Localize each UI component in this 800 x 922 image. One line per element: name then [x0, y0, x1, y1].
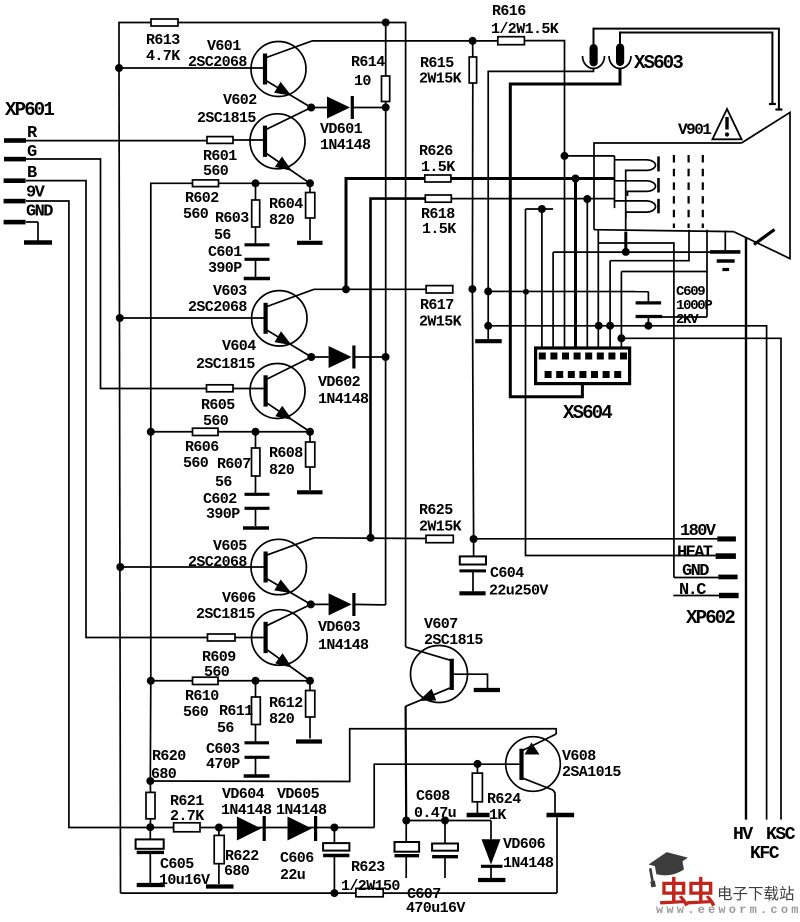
CRT anode tick	[754, 230, 775, 245]
svg-text:560: 560	[183, 455, 209, 472]
node dot V605 collector / B feed riser	[367, 534, 375, 542]
wire R616 to R cathode drop	[524, 41, 564, 354]
svg-text:R604: R604	[269, 196, 303, 213]
wire V608 emitter feedback	[150, 729, 556, 782]
C602 label	[203, 491, 240, 523]
wire V601 collector rail	[312, 40, 498, 42]
resistor R626	[425, 175, 451, 182]
R618 label	[421, 206, 456, 238]
capacitor C603	[244, 725, 270, 777]
CRT grid bar 1	[657, 156, 660, 171]
svg-text:1.5K: 1.5K	[421, 159, 455, 176]
wire R601 to V602 base	[233, 139, 265, 141]
svg-text:2W15K: 2W15K	[419, 519, 462, 536]
R611 label	[217, 703, 253, 737]
diode VD603	[311, 593, 386, 616]
wire thick G cathode feed	[346, 179, 615, 290]
svg-text:HV: HV	[733, 825, 753, 845]
C606 label	[280, 850, 314, 884]
capacitor C602	[243, 476, 270, 528]
svg-text:560: 560	[203, 163, 229, 180]
transistor V607	[406, 646, 468, 707]
wire top rail to R614/V607 drop	[178, 23, 406, 647]
wire V605 collector row	[314, 537, 426, 540]
wire V608 base	[374, 764, 521, 827]
capacitor C609	[636, 292, 663, 326]
svg-text:2W15K: 2W15K	[419, 314, 462, 331]
R602 label	[183, 190, 219, 223]
svg-text:10u16V: 10u16V	[159, 872, 210, 889]
wire V607 base to ground	[452, 674, 488, 688]
ground (R604)	[297, 241, 323, 245]
wire bias rail top	[119, 23, 151, 69]
transistor V605	[251, 538, 314, 605]
svg-text:2SC1815: 2SC1815	[196, 606, 255, 623]
resistor R621	[174, 823, 200, 832]
diode VD601	[311, 96, 386, 119]
svg-text:HEAT: HEAT	[677, 544, 713, 563]
node dot pin6/ground	[595, 322, 603, 330]
XP601 pin GND bar	[4, 220, 26, 225]
VD603 label	[318, 619, 369, 654]
C601 label	[208, 244, 242, 277]
wire staircase s1 to GND pin	[598, 243, 674, 578]
wire thick G drop to pin4	[574, 179, 577, 355]
capacitor C607 (electrolytic)	[395, 821, 420, 879]
wire XS603-2 bottom to XS604	[510, 68, 620, 397]
wire KSC line	[621, 338, 781, 819]
svg-text:R602: R602	[185, 190, 219, 207]
svg-text:2SC2068: 2SC2068	[188, 299, 247, 316]
wire x151 to R620	[149, 681, 152, 781]
C608 label	[414, 788, 456, 822]
XP602 pin HEAT bar	[716, 553, 736, 559]
HV label	[733, 825, 753, 845]
V601 label	[188, 38, 247, 71]
diode VD606	[481, 821, 503, 879]
svg-text:1N4148: 1N4148	[318, 637, 369, 654]
KSC label	[766, 825, 796, 845]
wire x151 tie line	[150, 432, 152, 681]
CRT grid dashed line 3	[702, 155, 704, 228]
C604 label	[489, 565, 548, 600]
R620 label	[151, 748, 186, 783]
C609 label	[676, 284, 712, 328]
resistor R616	[498, 37, 525, 45]
node dot V608 base / R624	[474, 760, 482, 768]
svg-text:2W15K: 2W15K	[419, 71, 462, 88]
CRT cathode 2	[615, 181, 656, 196]
XP602 pin 180V bar	[717, 536, 736, 541]
C607 label	[406, 886, 465, 917]
R626 label	[419, 143, 455, 176]
svg-text:VD606: VD606	[503, 836, 546, 853]
node dot V607 emitter node	[402, 817, 410, 825]
node dot pin7/ground	[606, 322, 614, 330]
resistor R612	[306, 681, 315, 739]
resistor R625	[426, 535, 453, 542]
node dot R620 bottom / C605	[146, 823, 154, 831]
CRT neck outline	[594, 143, 742, 230]
node dot V601 emitter / V602 collector / VD601	[307, 104, 315, 112]
R609 label	[202, 649, 236, 681]
VD602 label	[318, 374, 369, 408]
svg-text:V608: V608	[562, 748, 596, 765]
wire G1 row	[553, 251, 712, 253]
ground (R608)	[297, 490, 323, 494]
R604 label	[269, 196, 303, 229]
ground (V608 collector)	[547, 813, 575, 818]
XP601 pin G bar	[4, 157, 26, 162]
node dot R610/R611	[252, 677, 260, 685]
CRT neck bottom	[594, 230, 734, 232]
180V label	[680, 522, 717, 541]
capacitor C604	[459, 539, 486, 593]
R606 label	[183, 439, 219, 472]
svg-text:VD601: VD601	[320, 121, 363, 138]
resistor R606	[193, 428, 219, 435]
wire R609 to V606 base	[235, 637, 266, 639]
resistor R618	[425, 195, 451, 202]
wire V607 emitter line	[405, 706, 408, 820]
node dot VD605/C606	[330, 824, 338, 832]
resistor R617	[426, 286, 453, 293]
XP601 pin 9V label	[26, 184, 46, 203]
node dot R606/R607	[252, 428, 260, 436]
svg-text:2SA1015: 2SA1015	[562, 764, 621, 781]
svg-text:R616: R616	[492, 3, 526, 20]
svg-text:56: 56	[214, 227, 231, 244]
wire emitter node row	[406, 820, 491, 822]
diode VD602	[311, 346, 385, 369]
R615 label	[419, 55, 462, 88]
wire ground low tap / KFC line	[488, 326, 766, 820]
svg-text:470u16V: 470u16V	[406, 900, 465, 917]
node dot bias/V601 base	[115, 64, 123, 72]
wire V608 collector to bottom rail	[556, 818, 558, 894]
node dot C608 tap	[441, 817, 449, 825]
ground (XS603-1 line)	[475, 339, 502, 343]
svg-text:2SC2068: 2SC2068	[188, 554, 247, 571]
V603 label	[188, 283, 247, 316]
R614 label	[351, 54, 385, 90]
VD601 label	[320, 121, 371, 154]
wire pin7 drop	[609, 261, 611, 354]
svg-text:V605: V605	[213, 538, 247, 555]
capacitor C608	[432, 821, 458, 879]
node dot bias/V605 base	[116, 563, 124, 571]
wire diode clamp rail	[385, 107, 387, 357]
node dot V603 emitter / V604 collector / VD602	[307, 353, 315, 361]
R625 label	[419, 502, 462, 536]
V605 label	[188, 538, 247, 571]
wire XS603-2 top rail	[620, 33, 772, 105]
svg-text:560: 560	[183, 206, 209, 223]
resistor R614	[382, 23, 390, 108]
svg-text:C601: C601	[208, 244, 242, 261]
node dot ground line lower tap	[484, 322, 492, 330]
node dot VD602 cathode / clamp rail	[382, 353, 390, 361]
svg-text:R606: R606	[185, 439, 219, 456]
node dot C606 bottom	[330, 889, 338, 897]
R621 label	[170, 793, 204, 825]
wire thick cathode return	[624, 232, 627, 252]
wire ground mid tap	[488, 290, 648, 292]
wire cathode-1 drop to XS604 pin3 crossing	[564, 155, 566, 157]
wire pin2 drop	[552, 252, 554, 354]
svg-text:V603: V603	[213, 283, 247, 300]
wire pin8 drop	[620, 272, 622, 355]
wire staircase s2	[610, 230, 689, 261]
resistor R609	[208, 634, 236, 641]
R624 label	[487, 791, 521, 824]
wire V601 base	[119, 67, 265, 69]
wire pin1 drop	[541, 209, 543, 354]
node dot x151/R610	[147, 677, 155, 685]
CRT grid bar 2	[657, 178, 660, 193]
transistor V606	[251, 604, 310, 680]
wire XS603-1 bottom to ground line	[488, 69, 593, 343]
svg-text:820: 820	[269, 462, 295, 479]
resistor R624	[472, 764, 482, 813]
anode lead end tick 2	[769, 103, 776, 105]
svg-text:1N4148: 1N4148	[503, 855, 554, 872]
svg-text:56: 56	[215, 474, 232, 491]
node dot heater/ground crossing	[523, 289, 529, 295]
svg-text:VD602: VD602	[318, 374, 361, 391]
wire R input	[26, 140, 207, 142]
XP601 pin R label	[27, 124, 38, 143]
wire V605 base	[120, 566, 265, 568]
XP601 pin B bar	[4, 178, 26, 183]
resistor R611	[252, 681, 261, 725]
svg-text:1N4148: 1N4148	[221, 802, 272, 819]
svg-text:KFC: KFC	[750, 844, 780, 864]
node dot V601 collector rail / R615 / R616	[469, 37, 477, 45]
node dot R621/R622	[215, 824, 223, 832]
wire XS603-1 top rail	[594, 29, 779, 110]
R601 label	[203, 148, 237, 180]
wire B input	[26, 181, 208, 638]
node dot R602/R603	[252, 179, 260, 187]
V602 label	[197, 92, 257, 127]
resistor R610	[193, 677, 219, 684]
svg-text:R614: R614	[351, 54, 385, 71]
ground (R624)	[467, 813, 490, 818]
svg-text:XS603: XS603	[634, 52, 683, 74]
svg-text:C606: C606	[280, 850, 314, 867]
svg-text:R624: R624	[487, 791, 521, 808]
R616 label	[491, 3, 559, 38]
node dot G feed / pin4 drop	[572, 175, 580, 183]
wire 9V input	[26, 201, 374, 828]
svg-text:V604: V604	[222, 338, 256, 355]
svg-text:www.eeworm.com: www.eeworm.com	[656, 903, 800, 917]
capacitor C601	[244, 227, 270, 279]
svg-text:1/2W1.5K: 1/2W1.5K	[491, 21, 559, 38]
VD604 label	[221, 786, 272, 819]
CRT bell	[734, 112, 790, 258]
node dot R617 / R615	[468, 285, 476, 293]
wire R602 row	[151, 183, 310, 431]
ground (V607 base)	[474, 688, 500, 692]
C605 label	[159, 856, 210, 889]
R617 label	[419, 297, 462, 331]
svg-text:470P: 470P	[206, 756, 240, 773]
node dot B feed / pin5 drop	[583, 195, 591, 203]
node dot R625 / C604 / 180V	[470, 535, 478, 543]
wire N.C stub	[673, 595, 719, 597]
svg-text:R603: R603	[215, 210, 249, 227]
R607 label	[215, 456, 251, 491]
svg-text:R617: R617	[420, 297, 454, 314]
wire bias vertical	[119, 68, 557, 893]
KFC label	[750, 844, 780, 864]
R613 label	[146, 32, 180, 65]
wire R606 row	[151, 431, 310, 433]
wire R615/R617 to R625	[472, 289, 473, 539]
capacitor C606 (electrolytic)	[323, 828, 349, 894]
svg-text:1.5K: 1.5K	[422, 221, 456, 238]
ground (CRT coating)	[710, 231, 740, 270]
node dot V606 emitter / R612	[306, 677, 314, 685]
XP601 pin GND label	[26, 203, 53, 222]
resistor R607	[252, 432, 260, 476]
svg-text:R610: R610	[185, 688, 219, 705]
svg-text:1/2W150: 1/2W150	[341, 878, 400, 895]
node dot bias/V603 base	[116, 314, 124, 322]
node dot V604 emitter / R608	[306, 428, 314, 436]
svg-text:2SC1815: 2SC1815	[197, 110, 256, 127]
ground (VD606)	[478, 878, 505, 882]
capacitor C605 (electrolytic)	[136, 827, 165, 885]
V608 label	[562, 748, 621, 781]
wire B cathode feed riser	[371, 199, 426, 538]
V604 label	[196, 338, 256, 373]
svg-text:1N4148: 1N4148	[320, 137, 371, 154]
resistor R601	[207, 137, 233, 144]
XP602 pin NC bar	[719, 593, 739, 598]
transistor V608 (PNP)	[506, 734, 561, 813]
svg-text:180V: 180V	[680, 522, 717, 541]
svg-text:56: 56	[217, 720, 234, 737]
svg-text:10: 10	[354, 73, 371, 90]
wire G input	[26, 159, 207, 389]
transistor V604	[250, 357, 311, 432]
anode lead end tick 1	[775, 108, 782, 110]
XP602 pin GND bar	[718, 575, 737, 580]
wire pin6 drop	[597, 230, 599, 354]
node dot ground line upper tap	[484, 287, 492, 295]
resistor R623	[356, 888, 383, 896]
svg-text:R607: R607	[217, 456, 251, 473]
ground (R622)	[206, 884, 234, 888]
R610 label	[183, 688, 219, 721]
diode VD605	[288, 816, 316, 841]
svg-text:820: 820	[269, 212, 295, 229]
svg-text:C608: C608	[416, 788, 450, 805]
wire staircase s3	[621, 230, 707, 317]
XP602 label	[686, 607, 735, 629]
svg-text:680: 680	[151, 766, 177, 783]
transistor V601	[251, 41, 312, 108]
node dot V602 emitter / R604	[306, 179, 314, 187]
R608 label	[269, 445, 303, 479]
node dot V605 emitter / V606 collector / VD603	[307, 600, 315, 608]
resistor R615	[469, 41, 476, 289]
transistor V603	[252, 289, 314, 357]
C603 label	[206, 741, 240, 773]
svg-text:V901: V901	[678, 121, 711, 139]
connector XS603 socket 1	[583, 44, 605, 69]
node dot pin8 / KSC	[617, 334, 625, 342]
R623 label	[341, 859, 400, 895]
R605 label	[201, 397, 235, 430]
node dot VD601 cathode / R614	[382, 103, 390, 111]
VD605 label	[276, 786, 327, 819]
XS603 label	[634, 52, 683, 74]
node dot G1 row / thick cathode return	[622, 248, 630, 256]
wire heater row	[526, 209, 716, 556]
wire V603 collector row	[314, 288, 426, 290]
V606 label	[196, 590, 256, 623]
resistor R613	[151, 19, 178, 26]
XP601 pin G label	[27, 143, 37, 162]
CRT cathode 1 lead	[614, 156, 616, 208]
svg-text:0.47u: 0.47u	[414, 805, 456, 822]
connector XS603 socket 2	[609, 44, 631, 69]
R603 label	[214, 210, 249, 244]
R612 label	[269, 695, 303, 728]
svg-text:2SC2068: 2SC2068	[188, 54, 247, 71]
connector XP601 label	[5, 99, 54, 121]
svg-text:R605: R605	[201, 397, 235, 414]
wire GND pin	[674, 577, 718, 579]
wire HV line	[745, 238, 747, 820]
svg-text:4.7K: 4.7K	[146, 48, 180, 65]
svg-text:560: 560	[183, 704, 209, 721]
svg-text:R613: R613	[146, 32, 180, 49]
svg-text:VD604: VD604	[222, 786, 265, 803]
node dot V603 collector / thick feed	[342, 285, 350, 293]
svg-text:2.7K: 2.7K	[170, 808, 204, 825]
XP601 pin B label	[27, 164, 37, 183]
svg-text:R611: R611	[219, 703, 253, 720]
N.C label	[679, 581, 706, 600]
ground (R612)	[296, 739, 322, 743]
svg-text:1N4148: 1N4148	[318, 391, 369, 408]
svg-text:22u: 22u	[280, 867, 305, 884]
resistor R622	[214, 828, 224, 885]
svg-text:R615: R615	[420, 55, 454, 72]
resistor R608	[306, 432, 315, 490]
resistor R602	[193, 180, 219, 187]
svg-text:R626: R626	[419, 143, 453, 160]
svg-text:XS604: XS604	[563, 402, 612, 424]
svg-text:820: 820	[269, 711, 295, 728]
transistor V602	[250, 108, 311, 184]
wire R610 row	[151, 680, 310, 682]
wire B drop to pin5	[586, 199, 588, 354]
svg-text:9V: 9V	[26, 184, 46, 203]
svg-text:680: 680	[224, 863, 250, 880]
svg-text:R612: R612	[269, 695, 303, 712]
resistor R620	[146, 781, 155, 827]
svg-text:XP601: XP601	[5, 99, 54, 121]
svg-text:390P: 390P	[208, 260, 242, 277]
svg-text:390P: 390P	[206, 506, 240, 523]
connector XS604	[536, 348, 630, 384]
